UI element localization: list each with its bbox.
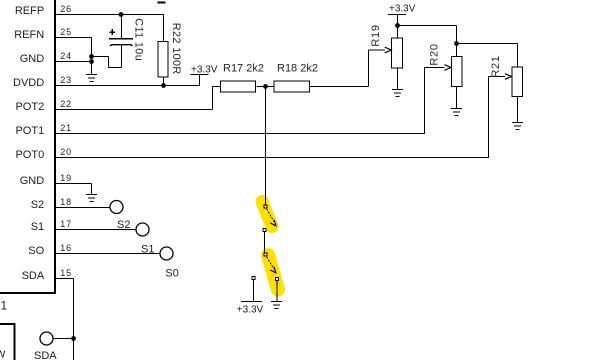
svg-text:POT2: POT2 <box>15 101 44 113</box>
svg-text:R22 100R: R22 100R <box>170 23 182 75</box>
svg-text:C11 10u: C11 10u <box>133 18 145 61</box>
svg-text:R17 2k2: R17 2k2 <box>223 63 264 75</box>
svg-text:SDA: SDA <box>34 350 57 360</box>
svg-text:REFN: REFN <box>14 29 44 41</box>
svg-text:R18 2k2: R18 2k2 <box>277 63 318 75</box>
svg-text:W: W <box>0 349 6 360</box>
svg-text:21: 21 <box>60 123 72 133</box>
svg-text:POT0: POT0 <box>15 149 44 161</box>
svg-text:S2: S2 <box>117 219 130 231</box>
svg-text:18: 18 <box>60 197 72 207</box>
svg-text:DVDD: DVDD <box>13 77 44 89</box>
svg-text:SDA: SDA <box>22 270 45 282</box>
svg-text:R19: R19 <box>370 24 382 46</box>
svg-text:20: 20 <box>60 147 72 157</box>
svg-text:GND: GND <box>20 175 45 187</box>
svg-text:25: 25 <box>60 27 72 37</box>
svg-text:15: 15 <box>60 268 72 278</box>
svg-text:R21: R21 <box>490 55 502 77</box>
svg-text:16: 16 <box>60 243 72 253</box>
svg-text:+3.3V: +3.3V <box>191 64 218 75</box>
svg-text:S1: S1 <box>31 221 44 233</box>
svg-text:24: 24 <box>60 51 72 61</box>
svg-text:GND: GND <box>20 53 45 65</box>
svg-text:S0: S0 <box>165 267 178 279</box>
svg-text:+3.3V: +3.3V <box>237 305 264 316</box>
svg-text:REFP: REFP <box>15 5 44 17</box>
svg-text:S1: S1 <box>141 244 154 256</box>
svg-text:23: 23 <box>60 75 72 85</box>
svg-text:22: 22 <box>60 99 72 109</box>
svg-text:+3.3V: +3.3V <box>389 4 416 15</box>
svg-text:R20: R20 <box>429 43 441 65</box>
svg-text:19: 19 <box>60 173 72 183</box>
svg-text:1: 1 <box>1 299 8 313</box>
svg-text:POT1: POT1 <box>15 125 44 137</box>
svg-text:S2: S2 <box>31 199 44 211</box>
svg-text:26: 26 <box>60 4 72 14</box>
svg-text:SO: SO <box>28 245 44 257</box>
svg-text:17: 17 <box>60 219 72 229</box>
